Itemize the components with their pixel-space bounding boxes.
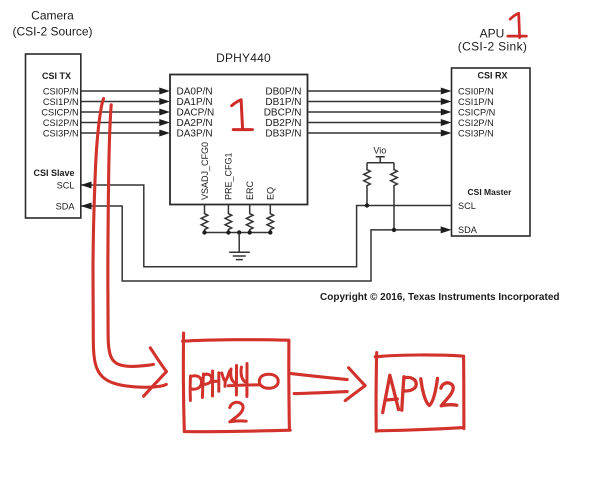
svg-text:DB1P/N: DB1P/N bbox=[265, 97, 301, 108]
handwritten text APU2 bbox=[383, 375, 457, 412]
svg-text:DB0P/N: DB0P/N bbox=[265, 86, 301, 97]
wire SDA net camera to APU bbox=[81, 206, 442, 281]
svg-text:DB2P/N: DB2P/N bbox=[265, 118, 301, 129]
svg-text:SDA: SDA bbox=[56, 201, 76, 211]
wire CSICP/N camera to DPHY bbox=[81, 111, 160, 113]
resistor R4 PRE_CFG1 bbox=[225, 205, 232, 233]
resistor R3 VSADJ_CFG0 bbox=[201, 205, 208, 233]
svg-text:CSI2P/N: CSI2P/N bbox=[43, 118, 79, 128]
junction bus VSADJ_CFG0 bbox=[202, 230, 206, 234]
junction bus PRE_CFG1 bbox=[226, 230, 230, 234]
annotation curved arrow outer stroke bbox=[93, 99, 166, 388]
annotation curved arrow inner stroke bbox=[108, 105, 154, 367]
power terminal Vio bbox=[376, 157, 385, 163]
svg-text:DA2P/N: DA2P/N bbox=[177, 118, 213, 129]
svg-text:DA0P/N: DA0P/N bbox=[177, 86, 213, 97]
ground bbox=[229, 252, 250, 259]
svg-text:DA1P/N: DA1P/N bbox=[177, 97, 213, 108]
svg-text:CSI1P/N: CSI1P/N bbox=[458, 97, 494, 107]
svg-text:DA3P/N: DA3P/N bbox=[177, 128, 213, 139]
wire CSI0P/N camera to DPHY bbox=[81, 90, 160, 92]
block U1 Camera (CSI-2 Source) bbox=[26, 54, 81, 218]
svg-text:CSICP/N: CSICP/N bbox=[41, 107, 78, 117]
svg-text:CSI TX: CSI TX bbox=[42, 71, 71, 81]
svg-text:(CSI-2 Source): (CSI-2 Source) bbox=[12, 25, 92, 39]
wire DB2P/N DPHY to APU bbox=[308, 122, 442, 124]
svg-text:CSI Master: CSI Master bbox=[468, 187, 513, 197]
block U2 DPHY440 bbox=[170, 75, 308, 205]
junction bus ERC bbox=[248, 230, 252, 234]
svg-text:DBCP/N: DBCP/N bbox=[264, 107, 302, 118]
handwritten text 2 (under DPHY440) bbox=[230, 402, 246, 422]
wire Vio rail bbox=[367, 162, 394, 164]
svg-text:CSI0P/N: CSI0P/N bbox=[458, 86, 494, 96]
svg-text:CSI Slave: CSI Slave bbox=[33, 168, 74, 178]
wire CSI1P/N camera to DPHY bbox=[81, 101, 160, 103]
svg-text:EQ: EQ bbox=[266, 187, 276, 200]
svg-text:SCL: SCL bbox=[57, 180, 75, 190]
resistor R5 ERC bbox=[246, 205, 253, 233]
handwritten text DPHY440 bbox=[190, 364, 278, 401]
block U3 APU (CSI-2 Sink) bbox=[452, 68, 531, 236]
svg-text:CSI3P/N: CSI3P/N bbox=[43, 128, 79, 138]
wire DB3P/N DPHY to APU bbox=[308, 132, 442, 134]
annotation box DPHY440 2 bbox=[183, 333, 291, 432]
svg-text:(CSI-2 Sink): (CSI-2 Sink) bbox=[458, 40, 528, 54]
svg-text:CSI3P/N: CSI3P/N bbox=[458, 128, 494, 138]
wire DB0P/N DPHY to APU bbox=[308, 90, 442, 92]
wire SCL net camera to APU bbox=[81, 185, 452, 267]
resistor R2 SDA pull-up bbox=[391, 163, 398, 230]
wire CSI3P/N camera to DPHY bbox=[81, 132, 160, 134]
svg-text:Vio: Vio bbox=[373, 146, 386, 156]
junction SDA pull-up bbox=[392, 228, 396, 232]
svg-text:DACP/N: DACP/N bbox=[177, 107, 215, 118]
svg-text:CSI1P/N: CSI1P/N bbox=[43, 97, 79, 107]
annotation arrow DPHY440-2 to APU2 bbox=[291, 368, 365, 401]
wire ground stem bbox=[238, 233, 240, 253]
svg-text:SDA: SDA bbox=[458, 225, 478, 235]
svg-text:VSADJ_CFG0: VSADJ_CFG0 bbox=[200, 142, 210, 200]
resistor R1 SCL pull-up bbox=[364, 163, 371, 206]
junction SCL pull-up bbox=[365, 203, 369, 207]
wire DBCP/N DPHY to APU bbox=[308, 111, 442, 113]
annotation box APU2 bbox=[375, 353, 464, 432]
annotation curved arrow head bbox=[144, 348, 167, 396]
svg-text:Camera: Camera bbox=[31, 9, 74, 23]
svg-text:PRE_CFG1: PRE_CFG1 bbox=[224, 152, 234, 200]
svg-text:CSI0P/N: CSI0P/N bbox=[43, 86, 79, 96]
svg-text:SCL: SCL bbox=[458, 201, 476, 211]
junction bus EQ bbox=[268, 230, 272, 234]
wire CSI2P/N camera to DPHY bbox=[81, 122, 160, 124]
svg-text:CSICP/N: CSICP/N bbox=[458, 107, 495, 117]
svg-text:APU: APU bbox=[480, 27, 505, 41]
svg-text:Copyright © 2016, Texas Instru: Copyright © 2016, Texas Instruments Inco… bbox=[320, 292, 559, 303]
svg-text:CSI2P/N: CSI2P/N bbox=[458, 118, 494, 128]
annotation red 1 beside APU bbox=[508, 13, 527, 37]
annotation red 1 inside DPHY440 bbox=[232, 100, 253, 130]
svg-text:ERC: ERC bbox=[245, 180, 255, 200]
svg-text:DPHY440: DPHY440 bbox=[216, 51, 271, 65]
svg-text:DB3P/N: DB3P/N bbox=[265, 128, 301, 139]
resistor R6 EQ bbox=[267, 205, 274, 233]
svg-text:CSI RX: CSI RX bbox=[477, 71, 507, 81]
junction bus center bbox=[237, 230, 241, 234]
wire DB1P/N DPHY to APU bbox=[308, 101, 442, 103]
wire ground bus bbox=[205, 232, 271, 234]
